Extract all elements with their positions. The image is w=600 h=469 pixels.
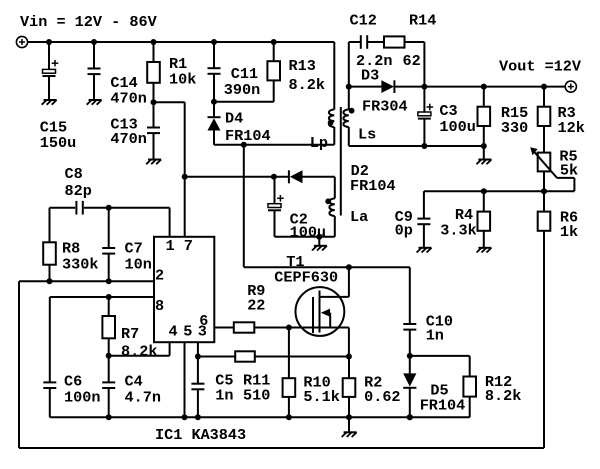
svg-text:D3: D3 [361,67,379,85]
svg-text:390n: 390n [224,81,260,99]
svg-text:10n: 10n [125,255,152,273]
svg-text:C12: C12 [350,12,377,30]
svg-text:Ls: Ls [358,126,376,144]
svg-text:3.3k: 3.3k [440,222,476,240]
svg-text:100u: 100u [439,118,475,136]
svg-text:R7: R7 [121,325,139,343]
svg-text:FR104: FR104 [225,127,271,145]
svg-text:R13: R13 [289,57,316,75]
svg-text:100n: 100n [64,388,100,406]
svg-text:CEPF630: CEPF630 [274,268,338,286]
svg-text:FR104: FR104 [420,397,466,415]
svg-text:330k: 330k [62,255,98,273]
svg-text:La: La [350,208,368,226]
svg-text:62: 62 [403,52,421,70]
svg-text:5: 5 [183,322,192,340]
svg-text:4.7n: 4.7n [125,388,161,406]
svg-text:2: 2 [155,267,164,285]
svg-text:22: 22 [247,296,265,314]
svg-text:470n: 470n [110,90,146,108]
svg-text:Lp: Lp [310,134,328,152]
svg-text:470n: 470n [110,130,146,148]
svg-text:C8: C8 [65,165,83,183]
svg-text:1n: 1n [426,327,444,345]
svg-text:FR304: FR304 [362,98,408,116]
svg-text:Vout =12V: Vout =12V [499,58,582,76]
svg-text:8.2k: 8.2k [121,342,157,360]
svg-text:IC1 KA3843: IC1 KA3843 [155,426,246,444]
svg-text:R14: R14 [409,12,436,30]
svg-text:0.62: 0.62 [364,388,400,406]
svg-text:0p: 0p [395,222,413,240]
svg-text:150u: 150u [40,134,76,152]
svg-text:5.1k: 5.1k [303,388,339,406]
svg-text:100u: 100u [290,223,326,241]
svg-text:8.2k: 8.2k [289,76,325,94]
svg-text:330: 330 [501,119,528,137]
svg-text:10k: 10k [169,71,196,89]
svg-text:1 7: 1 7 [166,237,193,255]
svg-text:1k: 1k [560,223,578,241]
svg-text:D4: D4 [225,110,243,128]
svg-text:4: 4 [169,322,178,340]
svg-text:3: 3 [198,322,207,340]
svg-text:82p: 82p [65,182,92,200]
svg-text:8.2k: 8.2k [485,387,521,405]
svg-text:FR104: FR104 [350,177,396,195]
svg-text:Vin = 12V - 86V: Vin = 12V - 86V [20,13,158,31]
svg-text:510: 510 [243,387,270,405]
svg-text:1n: 1n [215,387,233,405]
svg-text:8: 8 [155,297,164,315]
svg-text:12k: 12k [558,119,585,137]
svg-text:5k: 5k [560,162,578,180]
